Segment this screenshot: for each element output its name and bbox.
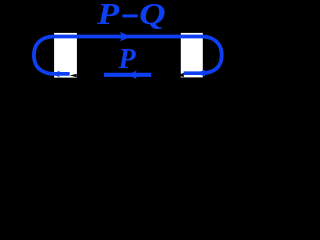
black arrow over right rectangle [177, 73, 184, 77]
machine block right (white rectangle) [181, 33, 203, 78]
svg-text:Q: Q [139, 0, 166, 31]
arrowhead on top line pointing right [120, 32, 132, 41]
wire: loop (rounded-rect belt, bottom-middle open) [34, 37, 222, 74]
svg-text:P: P [118, 44, 137, 75]
black arrow over left rectangle [70, 74, 77, 78]
machine block left (white rectangle) [54, 33, 77, 78]
arrowhead bottom-right pointing left [196, 69, 205, 77]
middle arrowhead pointing left [128, 71, 137, 80]
svg-text:P: P [96, 0, 120, 31]
arrowhead bottom-left pointing left [52, 71, 60, 78]
middle arrow P (shaft) [104, 73, 151, 77]
